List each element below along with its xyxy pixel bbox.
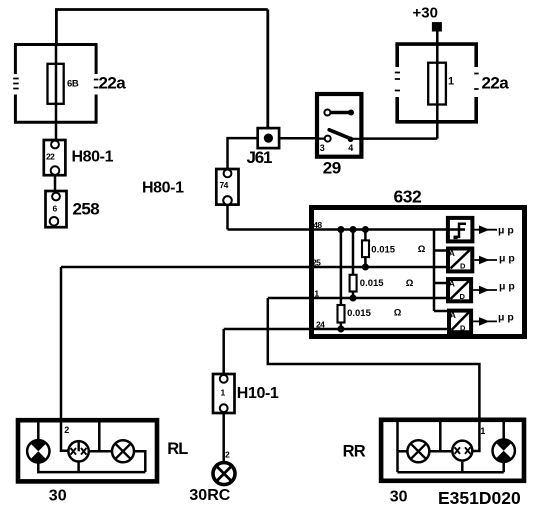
RR wire: left riser: [396, 421, 399, 473]
RR wire: bottom bus: [398, 471, 504, 474]
svg-text:3: 3: [320, 143, 325, 153]
RL wire: top edge drop: [98, 421, 101, 451]
wire: top bus from fuse 22a left to J61: [55, 8, 268, 11]
svg-text:A: A: [449, 248, 455, 258]
svg-text:30RC: 30RC: [189, 487, 230, 504]
svg-text:D: D: [460, 292, 466, 301]
RL lamp twin filament (middle): [68, 441, 88, 461]
svg-text:Ω: Ω: [406, 278, 414, 289]
wire: pin 1 down and across to RR lamp cluster: [268, 298, 480, 451]
svg-text:Ω: Ω: [418, 244, 426, 255]
wire: H10-1 to lamp 30RC: [222, 412, 225, 462]
RR wire: left riser to left lamp: [398, 450, 408, 453]
wire: J61 to connector H80-1 pin 74: [228, 138, 258, 169]
wire: pin 25 down to RL lamp cluster: [61, 267, 69, 451]
wire: J61 to switch 29: [279, 137, 316, 140]
svg-text:μ p: μ p: [499, 280, 515, 292]
svg-text:A: A: [449, 279, 455, 289]
RR lamp filled (right): [493, 440, 515, 462]
fuse 1: [428, 63, 446, 105]
output arrow 1 to microprocessor: [474, 229, 497, 231]
power tap square +30: [432, 22, 442, 31]
RL wire: middle to right lamp: [89, 450, 112, 453]
RL wire: top edge to filled lamp: [37, 421, 40, 440]
wire: pin 24 down to connector H10-1: [222, 329, 225, 374]
svg-text:22a: 22a: [99, 74, 127, 93]
svg-text:A: A: [450, 310, 456, 320]
fuse box 22a right: side hatch ticks: [395, 73, 479, 91]
svg-text:Ω: Ω: [394, 308, 402, 319]
wire: drop to shunt R1: [364, 230, 367, 268]
shunt resistor R1 0.015: [362, 240, 369, 257]
A/D converter 1: [448, 248, 472, 271]
lamp cluster RL: [18, 420, 157, 481]
wire: drop to shunt R3: [340, 230, 343, 330]
svg-text:1: 1: [480, 426, 485, 436]
connector 258 pin 6: [46, 191, 67, 227]
svg-text:22a: 22a: [482, 73, 510, 92]
svg-text:29: 29: [323, 158, 341, 177]
svg-text:74: 74: [220, 180, 229, 190]
svg-text:2: 2: [64, 425, 69, 435]
svg-text:632: 632: [394, 186, 422, 206]
RL wire: middle lamp bottom to bus: [77, 462, 80, 473]
wire: +30 down through right fuse: [436, 31, 439, 139]
output arrow 4 to microprocessor: [473, 320, 497, 322]
wire: through left fuse: [55, 44, 58, 140]
shunt resistor R3 0.015: [338, 305, 345, 323]
RR lamp cross (left): [407, 440, 429, 462]
A/D converter 2: [448, 279, 471, 302]
svg-text:D: D: [460, 323, 466, 332]
RL wire: bottom bus: [38, 463, 145, 473]
junction dot R1 to pin 25: [362, 264, 369, 271]
wire: pin 24 line to A/D 3: [224, 328, 450, 331]
fuse box 22a (left): [14, 44, 98, 124]
RR wire: middle lamp bottom to bus: [461, 461, 464, 473]
fuse box 22a (right): [395, 44, 478, 122]
wire: stub to A/D 2: [434, 282, 448, 285]
svg-text:H80-1: H80-1: [72, 149, 114, 166]
wire: pin 25 line from RL to A/D 1: [61, 266, 448, 269]
svg-text:30: 30: [390, 488, 408, 505]
svg-text:E351D020: E351D020: [438, 488, 521, 508]
fuse box 22a left: side hatch ticks: [13, 79, 98, 89]
A/D converter 3: [449, 310, 471, 332]
wire: stub to A/D 3: [434, 310, 449, 313]
wire: drop to shunt R2: [352, 230, 355, 299]
shunt resistor R2 0.015: [350, 275, 357, 292]
svg-text:D: D: [460, 262, 466, 271]
svg-text:6B: 6B: [67, 78, 79, 89]
svg-text:1: 1: [221, 387, 226, 397]
junction dots on pin 48 line: [337, 226, 344, 233]
RL wire: right lamp to right bus riser: [134, 451, 145, 472]
wire: drop into left fuse box: [55, 10, 58, 45]
svg-text:μ p: μ p: [498, 225, 514, 237]
RR wire: left to middle lamp: [429, 450, 452, 453]
wire: H80-1 to 258: [54, 175, 57, 191]
RR wire: filled lamp top to edge: [502, 421, 505, 440]
RR wire: filled lamp bottom to bus: [502, 462, 505, 472]
svg-text:0.015: 0.015: [347, 308, 371, 319]
lamp 30RC: [213, 463, 235, 485]
connector H80-1 pin 22: [44, 140, 66, 175]
svg-text:25: 25: [312, 258, 321, 268]
svg-text:22: 22: [46, 151, 55, 161]
svg-text:48: 48: [313, 220, 322, 230]
svg-text:2: 2: [225, 450, 230, 460]
svg-text:μ p: μ p: [499, 253, 515, 265]
square-wave stage box: [448, 218, 473, 242]
wire: H80-1 74 down to pin 48 line: [226, 205, 229, 230]
lamp cluster RR: [381, 420, 524, 481]
svg-text:1: 1: [448, 76, 454, 88]
connector H10-1: [213, 374, 235, 413]
wire: pin 48 line: [228, 228, 466, 231]
output arrow 2 to microprocessor: [474, 259, 497, 261]
svg-text:1: 1: [314, 288, 319, 298]
wire: switch 29 to fuse 22a right: [363, 137, 437, 140]
wire: stub to A/D 1: [434, 249, 448, 252]
svg-text:30: 30: [49, 488, 67, 505]
svg-text:+30: +30: [413, 4, 438, 21]
svg-text:RR: RR: [343, 442, 366, 460]
svg-text:258: 258: [73, 200, 100, 219]
control unit box 632: [312, 208, 525, 337]
RR lamp twin filament (middle): [452, 441, 472, 461]
svg-text:6: 6: [53, 204, 58, 214]
svg-text:24: 24: [316, 319, 325, 329]
junction dot R3 to pin 24: [337, 326, 344, 333]
switch 29: [317, 94, 363, 157]
fuse 6B: [48, 64, 64, 104]
RL lamp cross (right): [112, 440, 134, 462]
svg-text:J61: J61: [247, 148, 273, 167]
wire: pin 1 line to A/D 2: [268, 297, 448, 300]
svg-text:μ p: μ p: [498, 312, 514, 324]
wire: drop from top bus to J61: [266, 10, 269, 129]
junction J61: [258, 128, 279, 148]
RR wire: top edge drop: [439, 421, 442, 452]
RL lamp filled (left): [27, 440, 49, 462]
output arrow 3 to microprocessor: [473, 289, 497, 291]
svg-text:RL: RL: [167, 440, 188, 458]
connector H80-1 pin 74: [216, 169, 238, 205]
svg-text:H10-1: H10-1: [237, 385, 279, 402]
svg-text:0.015: 0.015: [360, 278, 384, 289]
svg-text:0.015: 0.015: [371, 245, 395, 256]
svg-text:H80-1: H80-1: [142, 179, 184, 196]
junction dot R2 to pin 1: [350, 295, 357, 302]
wire: internal bus to converters: [433, 230, 436, 312]
svg-text:4: 4: [348, 143, 353, 153]
